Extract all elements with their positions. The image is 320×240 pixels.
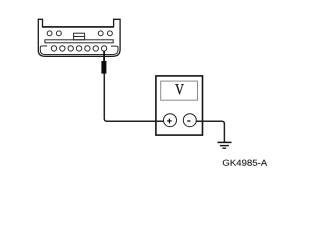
ground symbol bar 3 (222, 147, 226, 149)
latch midline (74, 36, 85, 38)
pin A4 (top row) (107, 31, 112, 36)
negative terminal circle (183, 114, 196, 127)
test probe body (101, 61, 106, 74)
pin B1 (bottom row) (51, 46, 56, 51)
pin B2 (60, 46, 65, 51)
slot (45, 40, 113, 43)
ground symbol bar 2 (220, 145, 229, 147)
minus sign (187, 120, 190, 122)
wire from probe to voltmeter + lead (104, 74, 170, 122)
figure ID label GK4985-A (223, 160, 267, 166)
ground symbol bar 1 (218, 141, 232, 143)
pin B7 (probed pin) (101, 46, 106, 51)
pin B6 (93, 46, 98, 51)
pin A3 (top row) (98, 31, 103, 36)
plus sign (167, 120, 172, 122)
voltmeter U1 body (156, 76, 203, 135)
pin A1 (top row) (47, 31, 52, 36)
wire from - terminal to ground (190, 121, 225, 142)
connector inner face outline (40, 46, 118, 55)
pin A2 (top row) (56, 31, 61, 36)
pin B3 (68, 46, 73, 51)
pin B5 (85, 46, 90, 51)
voltmeter display window (161, 81, 198, 100)
latch rectangle (74, 33, 85, 40)
pin B4 (76, 46, 81, 51)
positive terminal circle (164, 114, 177, 127)
connector shell top edge (thicker) (43, 26, 114, 28)
connector J1 shell outline (38, 19, 120, 56)
probe stem into pin B7 (103, 51, 105, 61)
V label on display (175, 84, 183, 94)
